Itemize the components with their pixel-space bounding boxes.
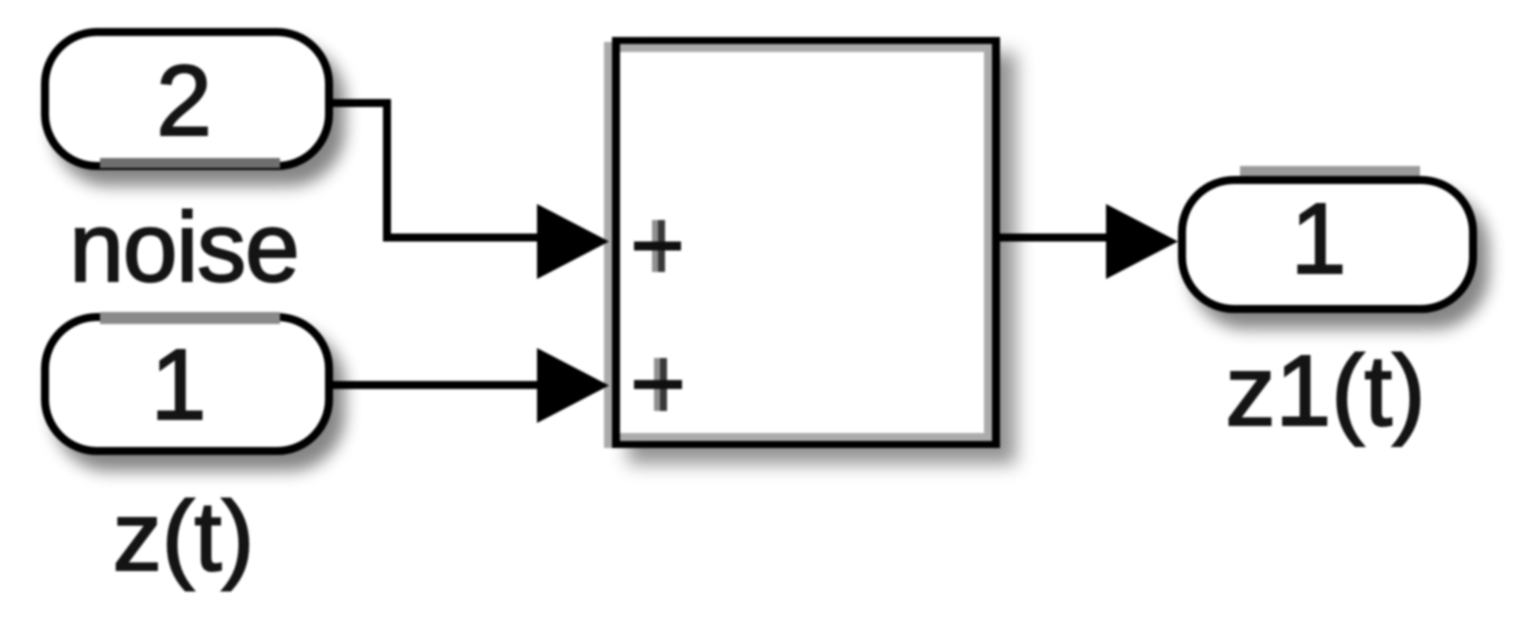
svg-text:1: 1 <box>1291 183 1347 295</box>
svg-text:z1(t): z1(t) <box>1226 335 1426 447</box>
sum gray strip outside-left <box>604 42 612 448</box>
wire from sum output to outport <box>1000 234 1107 242</box>
svg-text:noise: noise <box>69 192 298 302</box>
sum plus sign input 1 <box>634 220 681 272</box>
sum gray strip inside-right <box>984 52 992 434</box>
svg-text:2: 2 <box>156 45 212 157</box>
svg-text:1: 1 <box>151 329 207 441</box>
arrowhead at outport <box>1106 204 1178 279</box>
wire from inport 1 to sum input 2 <box>333 381 538 389</box>
inport block 2 (noise) <box>45 32 329 166</box>
sum gray strip inside-bottom <box>620 433 992 441</box>
sum plus sign input 2 <box>634 358 682 411</box>
inport 1 top edge gray overlay <box>100 312 280 324</box>
outport block 1 (z1(t)) <box>1182 180 1473 309</box>
inport block 1 (z(t)) <box>45 317 329 451</box>
wire from inport 2 to sum input 1 <box>333 99 538 242</box>
inport 2 bottom edge gray overlay <box>100 158 280 168</box>
arrowhead at sum input 1 <box>537 204 609 279</box>
svg-text:z(t): z(t) <box>113 481 255 591</box>
sum gray strip inside-top <box>620 44 992 52</box>
arrowhead at sum input 2 <box>537 348 609 423</box>
outport top edge gray band above <box>1240 166 1420 176</box>
sum block U1 <box>616 41 996 444</box>
